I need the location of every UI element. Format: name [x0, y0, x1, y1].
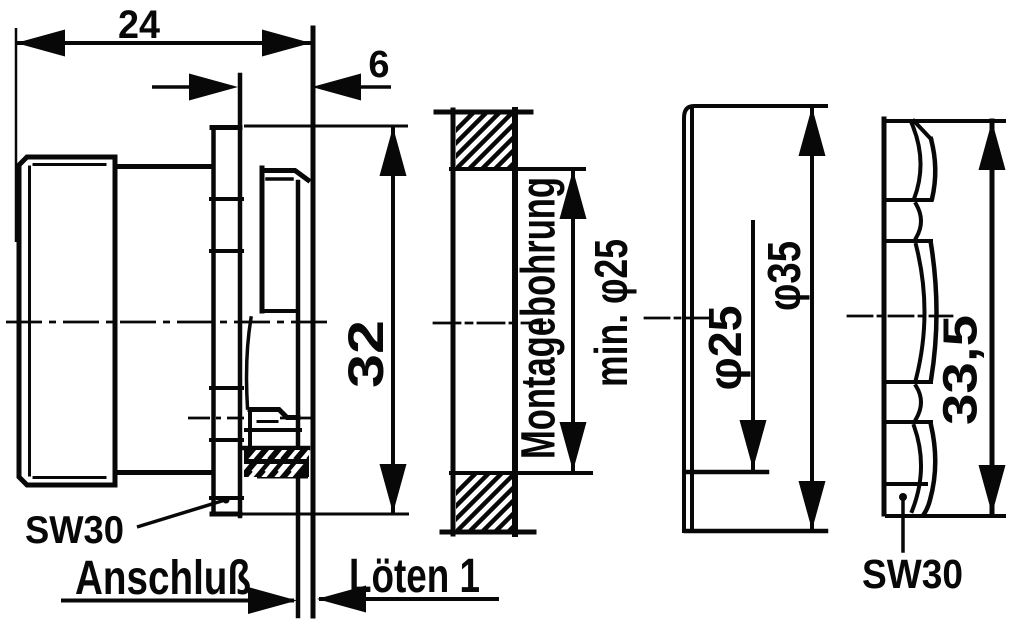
svg-text:φ25: φ25 — [699, 306, 751, 391]
svg-text:Löten 1: Löten 1 — [349, 550, 480, 603]
svg-text:φ35: φ35 — [758, 241, 810, 311]
svg-text:SW30: SW30 — [862, 551, 963, 597]
svg-text:33,5: 33,5 — [935, 315, 988, 425]
svg-text:6: 6 — [368, 44, 389, 86]
svg-text:Anschluß: Anschluß — [75, 552, 251, 605]
svg-text:SW30: SW30 — [25, 509, 124, 552]
svg-text:Montagebohrung: Montagebohrung — [513, 177, 566, 459]
svg-text:min. φ25: min. φ25 — [585, 239, 637, 387]
svg-text:32: 32 — [338, 320, 394, 388]
svg-text:24: 24 — [118, 3, 161, 47]
